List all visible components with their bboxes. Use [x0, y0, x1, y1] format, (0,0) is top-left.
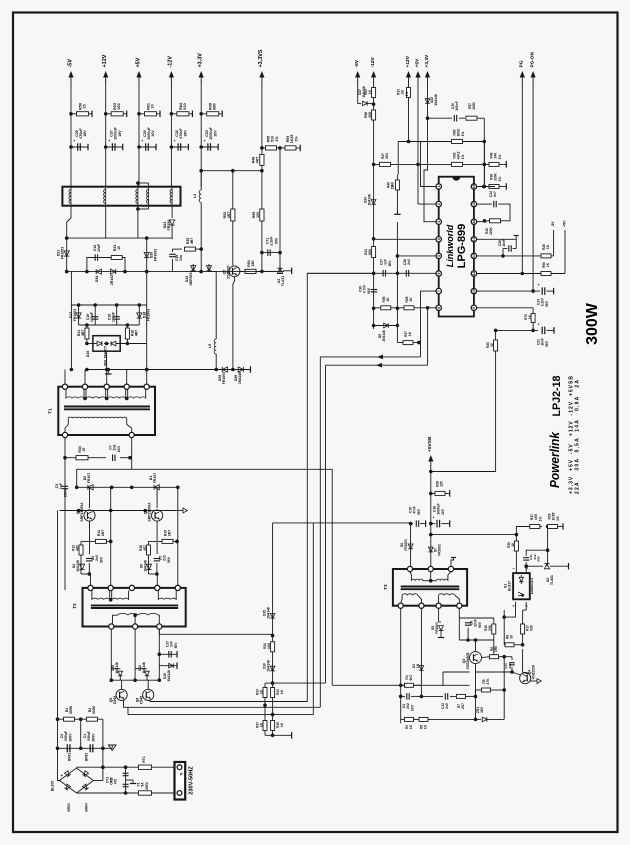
- snubber loop C12 R23: [87, 258, 125, 272]
- ic U3 right pins: [471, 184, 476, 189]
- wire pin8: [374, 307, 436, 309]
- bridge diode BR63: [64, 784, 70, 790]
- T2 secondary winding: [118, 614, 159, 616]
- wire sense column x272.6: [272, 523, 274, 735]
- diode D25: [222, 367, 227, 372]
- resistor R24: [271, 642, 275, 652]
- wire 3.3V diodes corner: [209, 272, 216, 339]
- wire pin2: [418, 203, 436, 205]
- wire pin13: [477, 238, 517, 240]
- wire x397 lower: [396, 222, 398, 343]
- capacitor C1: [89, 744, 91, 752]
- svg-text:PG: PG: [519, 60, 525, 67]
- diode D9 FR1003: [410, 524, 412, 567]
- diode D18: [138, 305, 140, 325]
- ground pin13: [515, 236, 517, 240]
- T3 primary winding: [410, 572, 411, 581]
- resistor R65: [381, 306, 391, 310]
- wire -12V column: [373, 81, 375, 329]
- svg-text:9: 9: [472, 307, 476, 309]
- resistor R60b: [452, 140, 463, 144]
- choke winding: [105, 187, 107, 206]
- resistor R1: [58, 718, 81, 720]
- wire pin1: [409, 142, 437, 187]
- resistor R41: [372, 247, 376, 258]
- wire Q5 emitter long: [124, 700, 321, 707]
- capacitor C12: [94, 254, 96, 261]
- svg-text:11: 11: [472, 272, 476, 276]
- resistor R49: [201, 113, 222, 115]
- resistor R46: [395, 180, 399, 190]
- svg-text:N: N: [180, 772, 184, 775]
- wire pin10: [477, 290, 540, 292]
- diode D3: [420, 662, 422, 685]
- resistor R4: [401, 684, 404, 686]
- wire pin8 riser: [427, 308, 429, 365]
- diode D23: [170, 220, 175, 225]
- wire long feedback y468.5: [77, 469, 333, 685]
- U1 pins: [515, 571, 517, 574]
- capacitor C4: [401, 695, 405, 697]
- transistor Q2: [84, 510, 95, 521]
- svg-text:C31nF: C31nF: [55, 483, 63, 489]
- wire +12V below choke: [105, 206, 107, 238]
- wire pin9 down: [532, 308, 534, 331]
- resistor R57: [466, 116, 477, 120]
- wire block top row: [71, 304, 146, 306]
- node y635: [271, 634, 275, 638]
- capacitor C16: [116, 305, 118, 325]
- svg-text:R164R7: R164R7: [131, 330, 139, 336]
- wire to T2 pin1: [88, 572, 92, 576]
- svg-text:C1547nF: C1547nF: [409, 506, 417, 514]
- svg-text:ZD118V: ZD118V: [476, 706, 484, 713]
- transistor Q4: [520, 673, 531, 684]
- choke L2 box: [62, 187, 180, 206]
- wire rail +3,3V: [200, 81, 202, 187]
- resistor R37: [263, 721, 267, 731]
- wire Q4 base: [522, 649, 524, 672]
- bus B2: [312, 523, 314, 715]
- wire R54 to U4 node: [261, 249, 263, 272]
- capacitor C18: [431, 523, 436, 525]
- capacitor C23: [201, 146, 218, 148]
- wire bus B4 arrow: [326, 364, 428, 366]
- resistor R37b: [397, 342, 418, 344]
- resistor R55: [261, 171, 263, 249]
- svg-text:R6243K2: R6243K2: [453, 151, 461, 159]
- T3 ground top right: [451, 558, 454, 567]
- resistor R28: [431, 492, 443, 494]
- T2 bottom pins: [109, 624, 114, 629]
- diode D4: [80, 555, 82, 571]
- svg-text:16: 16: [472, 185, 476, 189]
- svg-text:R55100: R55100: [252, 212, 260, 219]
- svg-text:50V: 50V: [388, 260, 392, 267]
- wire cap row: [58, 747, 113, 749]
- svg-text:BL205: BL205: [51, 781, 55, 791]
- diode D17: [78, 305, 80, 325]
- ground earth symbol: [111, 745, 113, 748]
- resistor R27: [516, 526, 542, 528]
- diode D5: [438, 608, 440, 622]
- svg-text:R4182K: R4182K: [364, 248, 372, 255]
- choke winding: [171, 187, 173, 206]
- resistor R62: [452, 162, 463, 166]
- wire x110.7 column: [110, 487, 112, 585]
- capacitor C19: [94, 305, 96, 325]
- capacitor C2: [66, 744, 68, 752]
- svg-text:R53100: R53100: [113, 103, 121, 110]
- resistor R30: [514, 541, 518, 551]
- resistor R48: [261, 148, 263, 171]
- resistor R47: [374, 163, 418, 165]
- wire T3 pin5 down: [400, 608, 402, 723]
- resistor R13: [79, 545, 83, 555]
- wire T2 pin3 right: [158, 629, 160, 634]
- T1 top pins: [62, 384, 67, 389]
- ground arrow right of Q1: [176, 510, 183, 512]
- svg-text:1%: 1%: [295, 136, 299, 142]
- svg-text:C72n2: C72n2: [109, 444, 117, 450]
- svg-text:12: 12: [472, 254, 476, 258]
- svg-text:RT1: RT1: [142, 756, 146, 763]
- wire y534 right: [431, 534, 517, 536]
- rail PG arrow: [521, 74, 523, 82]
- wire R37/R39 bottom: [265, 734, 292, 736]
- svg-text:13: 13: [472, 237, 476, 241]
- capacitor C10: [504, 656, 512, 658]
- wire C71 to U4: [278, 251, 282, 255]
- wire long row y369.5: [87, 369, 251, 371]
- svg-text:L5: L5: [208, 344, 212, 348]
- capacitor C37: [382, 270, 384, 277]
- svg-text:R524R7: R524R7: [223, 212, 231, 219]
- wire +5V column: [417, 81, 419, 204]
- svg-text:R56510: R56510: [267, 136, 275, 143]
- wire pin7: [421, 291, 437, 357]
- wire R27 column: [547, 527, 549, 551]
- wire rail -5V: [70, 81, 72, 187]
- svg-text:1%: 1%: [391, 185, 395, 190]
- rail +12V arrow: [105, 74, 107, 82]
- rail +5V arrow: [138, 74, 140, 82]
- wire y634 to R24 node: [159, 633, 272, 635]
- wire sb node row: [459, 639, 494, 641]
- rectifier block outline: [70, 272, 72, 305]
- svg-text:R184R7: R184R7: [139, 545, 147, 551]
- svg-text:-12V: -12V: [370, 56, 376, 67]
- wire Q2 emitter chain: [89, 521, 91, 541]
- wire y164.4 row: [418, 163, 484, 165]
- svg-text:+3,3V: +3,3V: [424, 54, 430, 68]
- node R56/R59: [278, 146, 282, 150]
- capacitor C21: [533, 329, 538, 331]
- svg-text:+5V: +5V: [415, 58, 421, 68]
- wire SBL center down: [106, 351, 108, 369]
- capacitor C8: [458, 608, 460, 618]
- wire +3.3V below L3: [200, 203, 202, 272]
- resistor R40: [489, 162, 499, 166]
- svg-text:C112n2: C112n2: [529, 554, 537, 560]
- svg-text:15: 15: [472, 202, 476, 206]
- svg-text:R214R7: R214R7: [77, 330, 85, 336]
- shunt regulator U2 TL431: [526, 565, 543, 567]
- transformer T2 box: [83, 588, 186, 627]
- svg-text:4: 4: [512, 605, 516, 607]
- diode D21: [66, 238, 68, 272]
- svg-text:R591K35: R591K35: [286, 135, 294, 144]
- svg-text:R191K65: R191K65: [548, 512, 556, 520]
- capacitor C33: [541, 287, 543, 295]
- wire Q3 gate row: [332, 684, 469, 686]
- thermistor RT1: [139, 765, 152, 769]
- wire -5V tag: [553, 230, 555, 256]
- diode D12: [135, 668, 144, 670]
- wire PG line: [521, 81, 523, 274]
- diode D6: [148, 555, 150, 571]
- svg-text:7: 7: [437, 290, 441, 292]
- capacitor C71: [262, 252, 280, 254]
- svg-text:5: 5: [437, 255, 441, 257]
- ic U3 left pins: [436, 184, 441, 189]
- rail +12V right arrow: [408, 74, 410, 82]
- wire bridge bottom AC to L: [77, 792, 175, 794]
- wire T2 pin1 down: [110, 629, 112, 680]
- wire -5V below choke: [70, 206, 72, 218]
- wire U1 pin3 down: [525, 602, 527, 610]
- capacitor C13: [444, 693, 446, 700]
- svg-text:+3,3VS: +3,3VS: [258, 49, 264, 67]
- wire y683 to bus: [273, 682, 326, 684]
- wire bus B1 top: [307, 272, 374, 274]
- wire C4 R7 row: [420, 685, 422, 696]
- svg-text:1%: 1%: [461, 132, 465, 137]
- wire R46 column: [396, 175, 398, 214]
- svg-text:50V: 50V: [545, 340, 549, 347]
- resistor R61: [139, 113, 160, 115]
- svg-text:R64510: R64510: [179, 102, 187, 110]
- resistor R16: [126, 325, 128, 343]
- svg-text:R31K: R31K: [405, 724, 413, 729]
- svg-text:R474K3: R474K3: [381, 153, 389, 159]
- svg-text:C3510n: C3510n: [175, 255, 183, 261]
- capacitor C30: [453, 115, 455, 122]
- wire Q3 source down: [475, 672, 477, 719]
- diode D16: [111, 668, 117, 670]
- transistor Q6: [143, 689, 154, 700]
- resistor R50: [71, 113, 92, 115]
- wire pin14: [477, 221, 487, 223]
- wire x177 column: [177, 487, 179, 585]
- diode D34: [96, 269, 101, 274]
- svg-text:C712.2nF: C712.2nF: [266, 237, 274, 246]
- resistor R63: [372, 88, 376, 98]
- svg-text:C2610nF: C2610nF: [498, 239, 506, 247]
- svg-text:1%: 1%: [405, 92, 409, 97]
- svg-text:8: 8: [437, 307, 441, 309]
- wire T3 pin6 down: [420, 608, 422, 662]
- bridge diode BR62: [82, 771, 88, 777]
- resistor R20: [494, 340, 498, 351]
- bus B3: [319, 357, 321, 707]
- capacitor C11: [525, 562, 527, 568]
- svg-text:200V: 200V: [92, 733, 96, 742]
- svg-text:R241K5: R241K5: [263, 643, 271, 649]
- diode D27: [363, 101, 368, 106]
- capacitor C24: [487, 203, 492, 205]
- svg-text:50V: 50V: [174, 642, 178, 649]
- wire Q4 emitter ground: [530, 680, 537, 682]
- wire 3.3V sense row: [201, 170, 262, 172]
- svg-text:C394.7nF: C394.7nF: [359, 285, 367, 294]
- T2 top pins: [88, 585, 93, 590]
- resistor R2: [81, 718, 103, 720]
- svg-text:D15: D15: [86, 351, 90, 357]
- diode D24: [371, 200, 376, 205]
- wire bridge minus stub: [94, 780, 103, 782]
- svg-text:Powerlink: Powerlink: [548, 431, 562, 488]
- svg-text:1%: 1%: [461, 155, 465, 160]
- mosfet Q7: [229, 266, 240, 277]
- resistor R8: [504, 644, 509, 646]
- diode D22: [425, 99, 430, 104]
- diode ZR102: [111, 269, 116, 274]
- svg-text:1: 1: [512, 567, 516, 569]
- wire Q7 drain: [234, 277, 236, 281]
- U1 led: [519, 577, 523, 581]
- svg-text:PS-ON: PS-ON: [529, 52, 535, 68]
- rail PS-ON arrow: [532, 74, 534, 82]
- resistor R9: [476, 689, 482, 691]
- diode D15: [270, 614, 275, 619]
- rail +5VSB arrow: [430, 458, 432, 466]
- svg-text:R839: R839: [506, 635, 514, 639]
- svg-text:16V: 16V: [118, 130, 122, 137]
- svg-text:50V: 50V: [417, 508, 421, 515]
- wire bus B3 arrow: [320, 356, 420, 358]
- svg-text:1%: 1%: [538, 517, 542, 522]
- svg-text:T3: T3: [383, 584, 388, 590]
- svg-text:250V: 250V: [145, 781, 149, 789]
- svg-text:BR61: BR61: [68, 753, 72, 762]
- svg-text:D34: D34: [95, 276, 99, 282]
- wire Q3 source: [475, 664, 477, 672]
- wire rail +5V: [138, 81, 140, 187]
- capacitor CY1 CY2: [125, 767, 127, 793]
- resistor R26: [541, 254, 551, 258]
- wire pin11: [477, 273, 565, 275]
- svg-text:3: 3: [437, 221, 441, 223]
- capacitor C17: [159, 653, 177, 655]
- svg-text:22A 30A 0,5A 14A 0,8A: 22A 30A 0,5A 14A 0,8A 2A: [575, 380, 581, 494]
- svg-text:1: 1: [437, 185, 441, 187]
- schottky D15 SBL1640CT box: [93, 336, 120, 352]
- bridge diode BR64: [82, 784, 88, 790]
- svg-text:10V: 10V: [441, 508, 445, 515]
- wire +5V tag: [564, 230, 566, 274]
- rail -5V right arrow: [357, 74, 359, 82]
- wire gate drive: [442, 672, 444, 685]
- svg-text:R1633K: R1633K: [484, 624, 492, 631]
- resistor R17: [521, 624, 525, 634]
- resistor R29: [404, 306, 414, 310]
- fuse F1: [139, 791, 152, 795]
- mosfet Q3: [470, 652, 482, 664]
- wire rail -12V: [170, 81, 172, 187]
- svg-text:1%: 1%: [556, 516, 560, 521]
- resistor R21: [86, 325, 88, 343]
- svg-text:+12V: +12V: [102, 54, 108, 67]
- capacitor C15: [409, 522, 413, 526]
- resistor R33: [265, 682, 273, 684]
- resistor R34: [65, 457, 106, 459]
- wire to T2 pin4: [155, 572, 159, 576]
- svg-text:R484R7: R484R7: [252, 157, 260, 164]
- resistor R58: [372, 110, 376, 120]
- wire +12V column: [408, 81, 410, 142]
- svg-text:R54180: R54180: [247, 260, 255, 267]
- capacitor C7: [112, 454, 114, 461]
- capacitor C39: [371, 289, 378, 291]
- resistor R19: [548, 526, 556, 528]
- bus B4: [325, 365, 327, 683]
- svg-text:R102K7: R102K7: [164, 530, 172, 536]
- svg-text:R4034K: R4034K: [490, 152, 498, 159]
- resistor R10: [158, 540, 177, 542]
- wire Q1 emitter chain: [156, 521, 158, 541]
- bus B1: [306, 273, 308, 701]
- wire U1 pin4 to row: [504, 602, 515, 617]
- T1 secondary windings: [65, 389, 67, 398]
- wire emitter row y510.5: [60, 510, 177, 512]
- resistor R38: [489, 185, 499, 189]
- wire pin3: [424, 119, 436, 222]
- svg-text:L3: L3: [193, 194, 197, 198]
- diode D19: [159, 665, 177, 667]
- resistor R53: [106, 113, 127, 115]
- svg-text:T1: T1: [48, 408, 53, 414]
- svg-text:50V: 50V: [367, 287, 371, 294]
- svg-text:C282n2: C282n2: [403, 259, 411, 265]
- wire +5V below choke: [137, 209, 139, 238]
- T2 core: [91, 604, 178, 606]
- wire +5VSB right: [431, 471, 496, 473]
- svg-text:1%: 1%: [275, 136, 279, 142]
- svg-text:16V: 16V: [184, 130, 188, 137]
- T3 secondary windings: [401, 595, 402, 603]
- svg-text:R584K8: R584K8: [364, 112, 372, 118]
- svg-text:230V-50HZ: 230V-50HZ: [189, 766, 195, 795]
- svg-text:LPG-899: LPG-899: [456, 224, 468, 269]
- svg-text:R134R7: R134R7: [72, 545, 80, 551]
- node R55/C71: [260, 251, 264, 255]
- svg-text:+3,3V: +3,3V: [198, 53, 204, 68]
- svg-text:R49680: R49680: [209, 103, 217, 110]
- svg-text:C102n2: C102n2: [504, 663, 512, 669]
- svg-text:1%: 1%: [498, 177, 502, 182]
- T2 primary windings: [91, 591, 93, 600]
- svg-text:50V: 50V: [545, 300, 549, 307]
- wire T2 pin2 down: [134, 629, 136, 680]
- capacitor C28: [405, 270, 407, 277]
- capacitor C26: [503, 248, 507, 250]
- resistor R39: [271, 721, 275, 731]
- capacitor C27: [106, 146, 123, 148]
- svg-text:50V: 50V: [167, 556, 171, 563]
- wire Q6 emitter long: [150, 700, 307, 701]
- rail +3,3V arrow: [200, 74, 202, 82]
